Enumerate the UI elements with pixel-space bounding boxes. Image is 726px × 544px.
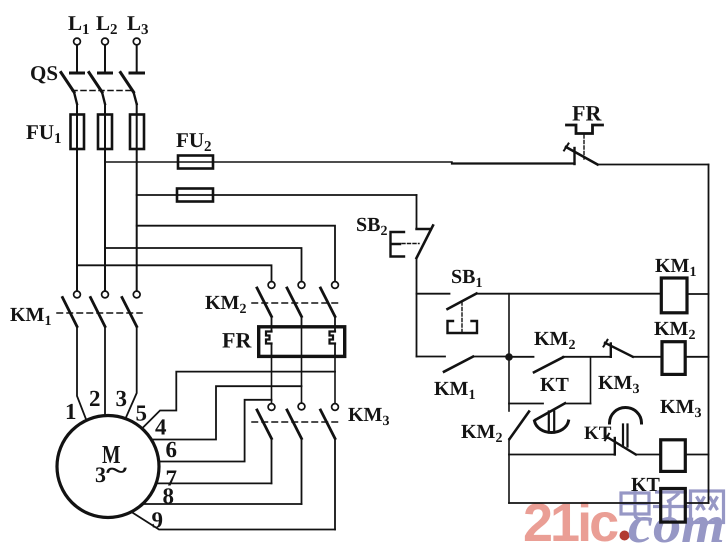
svg-text:4: 4 <box>155 415 167 440</box>
svg-text:6: 6 <box>166 437 178 462</box>
svg-text:FR: FR <box>572 101 602 126</box>
svg-text:3: 3 <box>95 462 106 487</box>
svg-text:8: 8 <box>163 484 175 509</box>
svg-text:KT: KT <box>584 423 612 444</box>
svg-text:9: 9 <box>152 508 164 533</box>
svg-text:KT: KT <box>540 374 570 396</box>
svg-text:QS: QS <box>30 61 58 85</box>
svg-text:5: 5 <box>136 401 148 426</box>
svg-text:~: ~ <box>106 456 128 487</box>
svg-text:KT: KT <box>631 474 661 496</box>
svg-text:3: 3 <box>116 386 128 411</box>
svg-text:2: 2 <box>89 386 101 411</box>
svg-text:21ic: 21ic <box>523 493 618 544</box>
svg-text:FR: FR <box>222 328 252 353</box>
svg-text:1: 1 <box>65 399 77 424</box>
